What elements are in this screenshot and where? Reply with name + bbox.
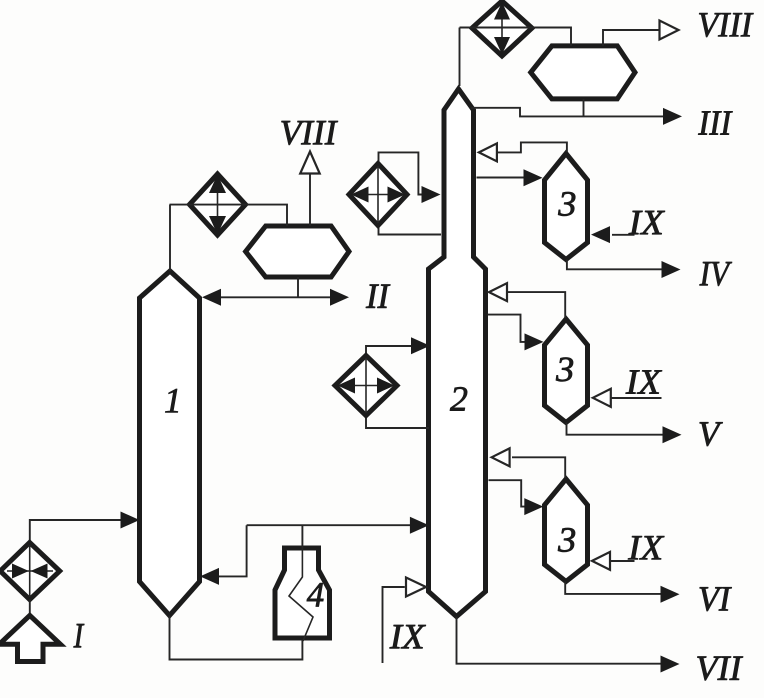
open arrow up VIII [300, 152, 320, 174]
column 1 [140, 271, 200, 616]
filled arrow hot return into column 1 [200, 568, 219, 585]
wire column 2 bottoms VII line [457, 617, 661, 664]
label II [366, 285, 390, 308]
wire II line [212, 296, 339, 298]
filled arrow III output [663, 108, 682, 125]
wire furnace outlet up [301, 525, 303, 548]
wire IX into stripper 1 [612, 234, 635, 236]
wire stripper 3 vapor return [512, 457, 565, 478]
cooler 1 right arrow [388, 187, 406, 203]
label 1 column [165, 389, 178, 412]
pumparound cooler diamond 2 [335, 356, 397, 416]
cooler 2 left arrow [338, 378, 356, 394]
wire VIII vent of drum 1 [309, 174, 311, 227]
condenser 2 down arrow [494, 37, 510, 55]
filled arrow pumparound 2 return to column 2 [411, 337, 430, 354]
wire III line from column 2 [471, 108, 663, 117]
cooler 1 internal vertical line [377, 166, 379, 223]
wire stripper 2 liquid draw [488, 315, 526, 342]
open arrow IX into stripper 3 [592, 552, 610, 570]
label 4 furnace [307, 583, 324, 606]
label VIII right [699, 13, 753, 37]
label 3 stripper 2 [556, 357, 573, 381]
heater right arrow (pointing in) [31, 564, 48, 579]
wire stripper 3 bottom VI line [565, 582, 660, 594]
open arrow vapor into column 2 (stripper 2) [489, 283, 507, 301]
label VIII left [281, 121, 337, 145]
feed heater diamond [0, 543, 60, 600]
wire stripper 1 vapor return [497, 142, 567, 152]
label III [698, 111, 732, 134]
label IX stripper 1 [629, 211, 665, 234]
wire pumparound 2 bottom draw [366, 415, 429, 428]
wire stripper 1 bottom IV line [567, 260, 662, 270]
condenser 2 up arrow [494, 2, 510, 20]
wire drum 2 bottom to III line [583, 99, 585, 117]
filled arrow VI output [661, 586, 680, 603]
wire heater to block arrow [29, 600, 31, 617]
block arrow I (feed input) [0, 615, 60, 661]
condenser 1 down arrow [209, 216, 226, 235]
filled arrow into column 1 (reflux) [202, 289, 221, 306]
wire through condenser to drum [170, 205, 288, 226]
filled arrow IX into stripper 1 [591, 226, 610, 243]
label V [700, 422, 723, 446]
filled arrow V output [663, 426, 682, 443]
wire hot feed to column 2 [247, 524, 411, 526]
heater internal vertical line [29, 545, 31, 597]
pumparound cooler diamond 1 [349, 164, 407, 226]
wire feed line I to column 1 [30, 520, 122, 543]
condenser diamond of column 2 [472, 1, 532, 56]
wire IX into stripper 3 [611, 560, 635, 562]
open arrow vapor into column 2 (stripper 1) [479, 143, 497, 161]
open arrow right VIII [660, 21, 679, 40]
label IX stripper 2 [626, 370, 662, 393]
filled arrow VII output [661, 656, 680, 673]
label 3 stripper 1 [558, 192, 575, 216]
filled arrow II output [330, 289, 349, 306]
wire IX into stripper 2 [612, 397, 662, 399]
wire column 2 overhead to condenser [459, 28, 461, 87]
furnace 4 [275, 548, 330, 638]
column 2 [429, 89, 486, 617]
condenser diamond of column 1 [190, 174, 246, 235]
wire hot return to column 1 [218, 525, 247, 576]
filled arrow IV output [662, 261, 681, 278]
wire pumparound 2 top loop [366, 346, 412, 356]
open arrow IX into stripper 2 [593, 389, 611, 407]
label VII [697, 657, 743, 681]
reflux drum hexagon of column 2 [531, 46, 635, 99]
label IX bottom steam [390, 625, 426, 648]
cooler 2 right arrow [377, 378, 395, 394]
label 3 stripper 3 [558, 528, 575, 552]
condenser 1 up arrow [209, 175, 226, 194]
cooler 1 internal horizontal line [352, 194, 404, 196]
filled arrow hot feed into column 2 [410, 517, 429, 534]
wire stripper 2 bottom V line [567, 423, 663, 435]
cooler 1 left arrow [351, 187, 369, 203]
wire drum 1 bottom to II line [297, 277, 299, 297]
wire column 1 bottoms to furnace [170, 616, 303, 660]
label IV [699, 262, 731, 286]
heater internal horizontal line [7, 570, 53, 572]
condenser 2 internal vertical line [501, 4, 503, 53]
label I feed [73, 624, 84, 647]
open arrow IX into column 2 [406, 578, 426, 597]
filled arrow draw into stripper 2 [525, 333, 544, 350]
cooler 2 internal vertical line [365, 358, 367, 413]
wire stripper 2 vapor return [508, 292, 565, 318]
wire pumparound 1 top loop [379, 152, 422, 194]
heater left arrow (pointing in) [12, 564, 29, 579]
label 2 column [450, 387, 467, 411]
label IX stripper 3 [628, 536, 664, 559]
wire stripper 3 liquid draw [489, 480, 525, 506]
filled arrow draw into stripper 3 [524, 498, 543, 515]
reflux drum hexagon of column 1 [246, 226, 349, 277]
filled arrow draw into stripper 1 [524, 169, 543, 186]
wire VIII vent of drum 2 [603, 30, 660, 46]
wire through condenser 2 to drum 2 [460, 28, 572, 46]
condenser 1 internal vertical line [217, 177, 219, 232]
wire column 1 overhead to condenser [169, 205, 171, 271]
cooler 2 internal horizontal line [339, 385, 393, 387]
filled arrow feed into column 1 [121, 512, 140, 529]
stripper 3 (top) [545, 154, 588, 260]
wire stripper 1 liquid draw [477, 177, 525, 179]
open arrow vapor into column 2 (stripper 3) [492, 448, 510, 466]
filled arrow pumparound 1 return to column 2 [422, 186, 441, 203]
stripper 3 (bottom) [545, 479, 588, 582]
stripper 3 (middle) [545, 319, 588, 423]
wire IX steam into column 2 bottom [383, 587, 405, 663]
furnace heating coil zigzag [289, 547, 313, 641]
wire pumparound 1 bottom draw [379, 225, 442, 235]
label VI [700, 587, 732, 611]
